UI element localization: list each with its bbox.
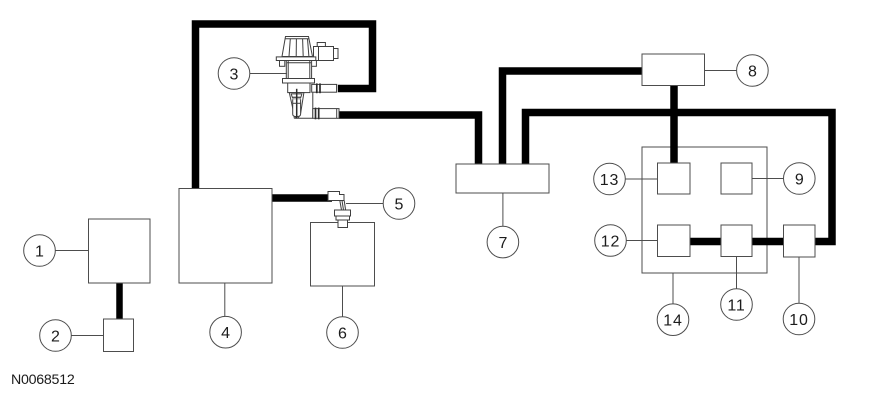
leader 2 <box>71 335 104 337</box>
svg-text:2: 2 <box>51 328 60 345</box>
svg-text:3: 3 <box>230 66 239 83</box>
injector 5 <box>328 192 351 228</box>
callout 1 <box>24 235 56 267</box>
callout 14 <box>657 304 689 336</box>
flange <box>276 57 316 61</box>
box 14 outer connector block <box>642 147 767 273</box>
box 12 <box>658 225 691 257</box>
leader 3 <box>250 73 288 75</box>
leader 9 <box>752 178 784 180</box>
leader 14 <box>672 273 674 304</box>
leader 13 <box>625 178 657 180</box>
shoulder <box>283 79 315 84</box>
leader 11 <box>736 257 738 289</box>
center line <box>296 89 298 119</box>
box 9 <box>721 163 752 194</box>
callout 11 <box>721 289 753 321</box>
box 8 <box>642 54 705 86</box>
callout 8 <box>737 55 769 87</box>
hose D: box7 to right loop to box10 and box12 <box>526 113 833 242</box>
step block <box>288 83 310 93</box>
callout 6 <box>327 317 359 349</box>
leader 6 <box>342 286 344 317</box>
svg-text:4: 4 <box>221 325 230 342</box>
hose B: valve lower port to box7 <box>339 115 479 168</box>
leader 8 <box>705 70 737 72</box>
box 6 <box>311 223 375 287</box>
upper port <box>312 84 337 92</box>
svg-text:9: 9 <box>795 171 804 188</box>
hose box1 to box2 <box>116 281 123 321</box>
svg-text:13: 13 <box>600 172 619 189</box>
funnel cone <box>289 93 304 118</box>
callout 10 <box>783 303 815 335</box>
svg-text:7: 7 <box>498 235 507 252</box>
svg-text:12: 12 <box>601 233 620 250</box>
callout 7 <box>487 226 519 258</box>
box 2 <box>104 319 134 352</box>
leader 1 <box>55 250 89 252</box>
valve 3 <box>276 37 339 120</box>
leader 7 <box>502 193 504 226</box>
box 1 <box>89 219 151 283</box>
svg-text:N0068512: N0068512 <box>11 372 75 388</box>
svg-text:5: 5 <box>395 196 404 213</box>
callout 5 <box>383 188 415 220</box>
leader 5 <box>346 203 383 205</box>
cap <box>282 37 313 57</box>
callout 9 <box>784 163 816 195</box>
svg-text:6: 6 <box>338 325 347 342</box>
box 10 <box>784 225 816 257</box>
svg-text:1: 1 <box>35 243 44 260</box>
callout 4 <box>210 316 242 348</box>
leader 12 <box>626 240 658 242</box>
elbow <box>294 99 313 118</box>
svg-text:14: 14 <box>663 313 682 330</box>
box 13 <box>658 163 691 194</box>
funnel cup <box>291 94 302 99</box>
box 7 <box>456 164 549 193</box>
callout 13 <box>594 163 626 195</box>
hose C: box7 to box8 <box>503 71 645 168</box>
box 4 <box>179 189 272 284</box>
hose G: box4 to injector 5 <box>270 194 332 202</box>
svg-text:11: 11 <box>727 297 745 314</box>
svg-text:10: 10 <box>789 312 808 329</box>
hose E: box8 to box13 <box>670 83 678 165</box>
leader 4 <box>224 283 226 317</box>
hose A: box4 top to valve upper port <box>196 24 373 192</box>
body <box>286 61 311 79</box>
inner tube <box>293 99 301 116</box>
box 11 <box>721 225 752 257</box>
svg-text:8: 8 <box>748 63 757 80</box>
lower port <box>313 109 339 119</box>
callout 3 <box>218 58 250 90</box>
callout 12 <box>595 225 627 257</box>
callout 2 <box>40 320 72 352</box>
connector <box>317 43 325 47</box>
leader 10 <box>798 257 800 303</box>
